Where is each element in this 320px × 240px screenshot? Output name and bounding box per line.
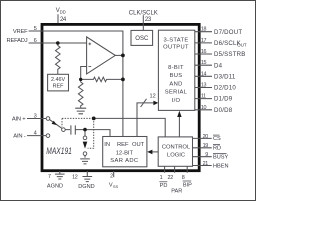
svg-text:15: 15 [201,60,207,66]
svg-text:D7/DOUT: D7/DOUT [214,29,242,36]
svg-text:AIN +: AIN + [12,117,26,123]
svg-text:VREF: VREF [13,29,28,35]
svg-text:I/O: I/O [172,98,181,104]
svg-text:D4: D4 [214,62,223,69]
svg-text:3: 3 [34,114,37,120]
svg-text:7: 7 [48,174,51,180]
svg-text:8: 8 [182,175,185,181]
svg-text:11: 11 [201,94,206,100]
svg-text:5: 5 [34,26,37,32]
svg-text:3-STATE: 3-STATE [163,38,188,44]
svg-text:D3/D11: D3/D11 [214,73,236,80]
svg-text:D2/D10: D2/D10 [214,85,236,92]
svg-text:CS: CS [213,136,221,142]
svg-text:13: 13 [201,83,207,89]
svg-text:SS: SS [113,184,119,189]
svg-text:12: 12 [150,94,156,100]
svg-text:AGND: AGND [47,183,63,189]
svg-text:REF: REF [53,84,64,90]
svg-text:AND: AND [169,81,182,87]
svg-text:14: 14 [201,71,207,77]
svg-text:PD: PD [160,183,168,189]
svg-text:AIN -: AIN - [13,134,25,140]
svg-text:12-BIT: 12-BIT [116,151,134,157]
svg-text:2.46V: 2.46V [51,77,65,83]
svg-text:CONTROL: CONTROL [162,145,191,151]
svg-text:D1/D9: D1/D9 [214,96,233,103]
svg-text:CLK/SCLK: CLK/SCLK [129,11,158,17]
svg-text:4: 4 [34,131,37,137]
svg-text:22: 22 [168,175,174,181]
svg-text:9: 9 [205,152,208,158]
svg-text:D5/SSTRB: D5/SSTRB [214,51,246,58]
svg-text:21: 21 [203,161,209,167]
svg-text:IN: IN [104,142,110,148]
svg-text:8-BIT: 8-BIT [168,65,184,71]
svg-text:OUT: OUT [237,42,247,47]
svg-text:OUT: OUT [132,142,145,148]
svg-text:RD: RD [213,146,221,152]
svg-text:PAR: PAR [171,188,182,194]
svg-text:OUTPUT: OUTPUT [163,45,189,51]
svg-text:REF: REF [117,142,129,148]
svg-text:REFADJ: REFADJ [6,38,27,44]
svg-text:BIP: BIP [183,182,192,188]
svg-text:MAX191: MAX191 [46,146,72,156]
svg-text:BUSY: BUSY [213,155,229,161]
svg-text:OSC: OSC [135,36,149,42]
svg-text:19: 19 [203,143,209,149]
svg-text:SAR ADC: SAR ADC [110,158,138,164]
svg-text:DGND: DGND [78,184,94,190]
svg-text:LOGIC: LOGIC [167,152,185,158]
svg-text:20: 20 [203,134,209,140]
svg-text:17: 17 [201,38,207,44]
svg-text:16: 16 [201,49,207,55]
svg-text:6: 6 [34,38,37,44]
svg-text:D0/D8: D0/D8 [214,107,233,114]
svg-text:10: 10 [201,105,207,111]
svg-text:DD: DD [60,9,66,14]
svg-text:HBEN: HBEN [213,163,229,169]
svg-text:2: 2 [110,174,113,180]
svg-text:1: 1 [160,175,163,181]
svg-text:BUS: BUS [170,73,183,79]
svg-text:18: 18 [201,27,207,33]
svg-text:SERIAL: SERIAL [165,90,188,96]
svg-text:12: 12 [72,175,78,181]
